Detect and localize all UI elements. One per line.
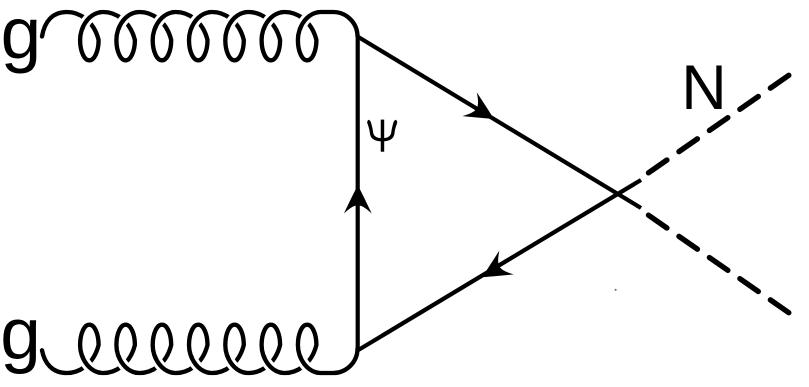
gluon g1 (top curly line): [42, 12, 358, 60]
wire: vertical fermion line psi: [356, 38, 360, 350]
faint dot artifact: [615, 289, 617, 291]
svg-text:g: g: [0, 294, 41, 375]
arrow on upper diagonal (down-right): [462, 92, 501, 131]
wire: lower diagonal fermion line: [358, 180, 642, 351]
wire: upper diagonal fermion line: [358, 37, 642, 209]
arrow on vertical line (up): [344, 185, 372, 214]
dashed line N upper-right: [649, 72, 794, 172]
gluon crossing casings: [83, 13, 99, 27]
dashed line N lower-right: [649, 215, 794, 315]
arrow on lower diagonal (down-left): [475, 251, 514, 290]
gluon g2 (bottom curly line): [42, 325, 358, 373]
label psi: [367, 120, 397, 152]
svg-text:N: N: [681, 53, 727, 123]
svg-text:g: g: [1, 0, 42, 75]
